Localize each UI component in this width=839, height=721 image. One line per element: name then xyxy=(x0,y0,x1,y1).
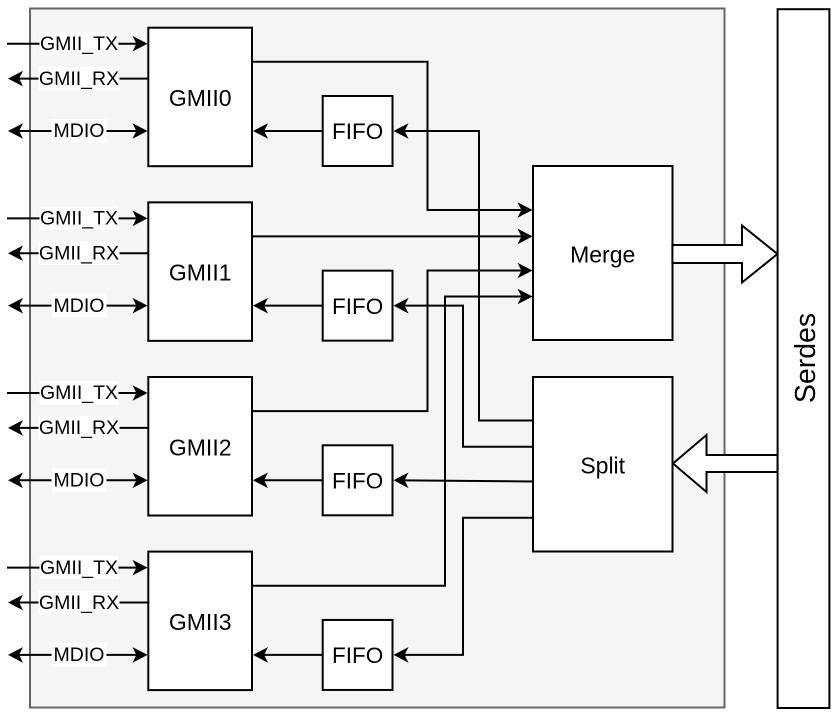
svg-text:GMII3: GMII3 xyxy=(169,609,232,635)
block arrow Serdes to Split xyxy=(673,435,778,492)
svg-text:FIFO: FIFO xyxy=(332,119,383,144)
svg-text:Merge: Merge xyxy=(570,241,635,267)
wire MDIO bidirectional row2 xyxy=(19,479,137,481)
block arrow Merge to Serdes xyxy=(672,226,777,283)
wire GMII_RX output row3 xyxy=(19,602,148,604)
wire Split port 4 to FIFO3 xyxy=(394,518,534,663)
svg-text:MDIO: MDIO xyxy=(54,295,105,317)
svg-text:GMII_TX: GMII_TX xyxy=(40,33,118,55)
svg-text:GMII1: GMII1 xyxy=(169,260,232,286)
GMII2 block xyxy=(148,377,252,516)
wire GMII_TX input row3 xyxy=(7,567,137,569)
GMII0 block xyxy=(148,28,252,167)
svg-text:Serdes: Serdes xyxy=(790,313,822,403)
svg-text:MDIO: MDIO xyxy=(54,644,105,666)
svg-text:GMII0: GMII0 xyxy=(169,85,232,111)
svg-text:FIFO: FIFO xyxy=(332,294,383,319)
wire GMII_TX input row1 xyxy=(7,217,137,219)
wire GMII2 TX output to Merge port 3 xyxy=(252,263,533,411)
svg-text:GMII_RX: GMII_RX xyxy=(39,242,119,264)
Merge block xyxy=(533,166,673,340)
svg-text:GMII_TX: GMII_TX xyxy=(40,382,118,404)
wire GMII3 TX output to Merge port 4 xyxy=(252,289,533,586)
GMII1 external port wires and labels xyxy=(7,206,148,317)
wire GMII_TX input row0 xyxy=(7,43,137,45)
wire FIFO1 to GMII1 xyxy=(253,298,323,314)
svg-text:GMII_TX: GMII_TX xyxy=(40,557,118,579)
FIFO1 block xyxy=(323,271,393,341)
wire MDIO bidirectional row1 xyxy=(19,305,137,307)
svg-text:Split: Split xyxy=(580,453,625,479)
wire Split port 2 to FIFO1 xyxy=(394,298,534,447)
svg-text:GMII_RX: GMII_RX xyxy=(39,592,119,614)
wire Split port 1 to FIFO0 xyxy=(394,123,534,420)
FIFO2 block xyxy=(323,445,393,515)
svg-text:GMII_RX: GMII_RX xyxy=(39,417,119,439)
Split block xyxy=(533,377,673,552)
wire Split port 3 to FIFO2 xyxy=(394,473,534,489)
wire MDIO bidirectional row0 xyxy=(19,130,137,132)
svg-text:MDIO: MDIO xyxy=(54,120,105,142)
svg-text:GMII_TX: GMII_TX xyxy=(40,208,118,230)
wire GMII_RX output row1 xyxy=(19,252,148,254)
svg-text:GMII_RX: GMII_RX xyxy=(39,68,119,90)
GMII3 external port wires and labels xyxy=(7,556,148,667)
svg-text:GMII2: GMII2 xyxy=(169,434,232,460)
wire GMII0 TX output to Merge port 1 xyxy=(252,62,533,218)
GMII2 external port wires and labels xyxy=(7,381,148,492)
wire FIFO2 to GMII2 xyxy=(253,473,323,489)
svg-text:MDIO: MDIO xyxy=(54,470,105,492)
Serdes block xyxy=(778,9,830,708)
GMII3 block xyxy=(148,552,252,691)
GMII1 block xyxy=(148,202,252,341)
wire GMII_RX output row0 xyxy=(19,78,148,80)
wire FIFO0 to GMII0 xyxy=(253,123,323,139)
svg-text:FIFO: FIFO xyxy=(332,469,383,494)
svg-text:FIFO: FIFO xyxy=(332,643,383,668)
wire GMII_RX output row2 xyxy=(19,427,148,429)
FIFO3 block xyxy=(323,620,393,690)
wire MDIO bidirectional row3 xyxy=(19,654,137,656)
GMII0 external port wires and labels xyxy=(7,32,148,143)
wire FIFO3 to GMII3 xyxy=(253,647,323,663)
wire GMII1 TX output to Merge port 2 xyxy=(252,229,533,245)
wire GMII_TX input row2 xyxy=(7,392,137,394)
FIFO0 block xyxy=(323,96,393,166)
